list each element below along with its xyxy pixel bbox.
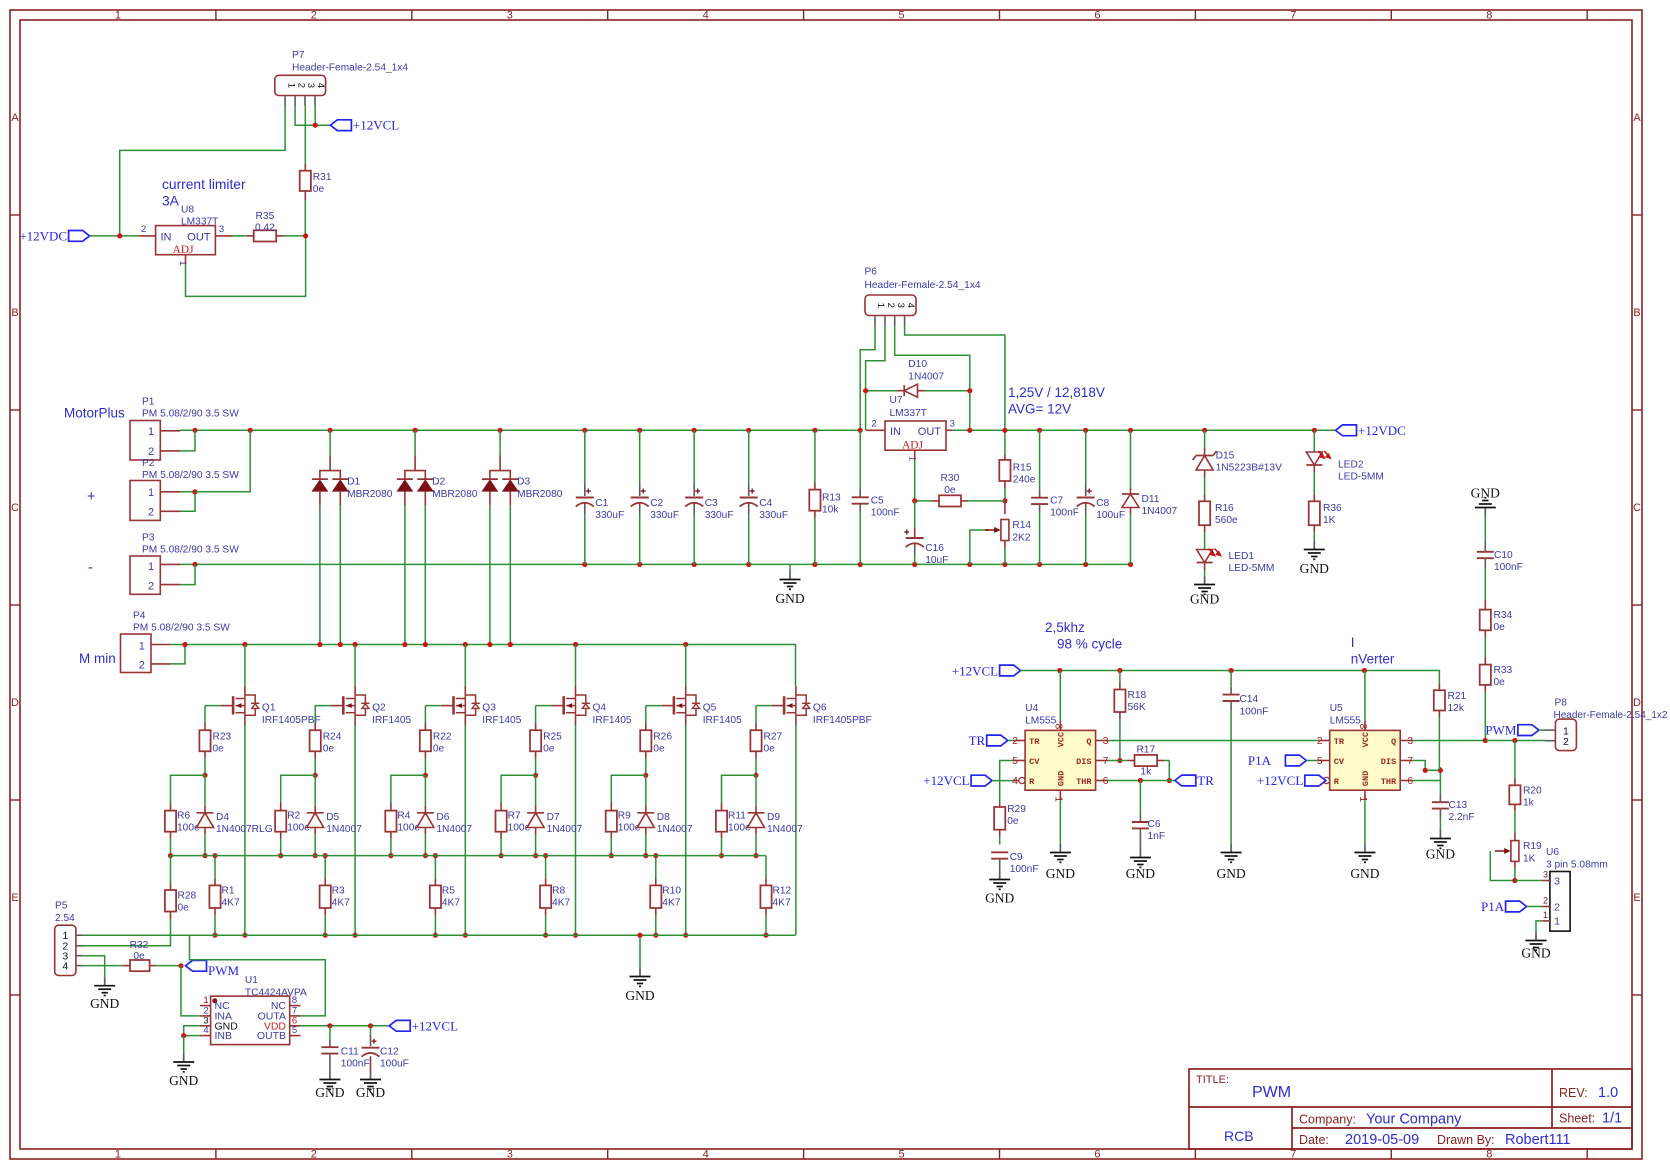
wire U4 THR line: [1108, 780, 1175, 782]
svg-text:1: 1: [148, 487, 154, 499]
svg-text:R8: R8: [552, 886, 565, 897]
svg-text:7: 7: [1103, 755, 1109, 767]
wire P6 pin2 to D10 anode-left: [866, 326, 885, 431]
junction rail A x=860.2: [858, 428, 863, 433]
svg-text:-: -: [88, 560, 93, 576]
svg-text:GND: GND: [1300, 561, 1329, 576]
resistor R16 560e: [1199, 501, 1210, 525]
junction rail A x=1004.9: [1002, 428, 1007, 433]
junction rail A x=694.2: [692, 428, 697, 433]
resistor R33 0e: [1480, 665, 1491, 685]
wire VDD to +12VCL: [301, 1025, 390, 1027]
svg-text:GND: GND: [315, 1085, 344, 1100]
junction rail G Q1 source: [242, 933, 247, 938]
wire Q5 source to rail G: [685, 715, 687, 725]
svg-text:R10: R10: [662, 886, 681, 897]
svg-text:R11: R11: [728, 811, 746, 822]
svg-text:D9: D9: [767, 812, 780, 823]
wire rail G source common: [83, 934, 795, 936]
resistor R5 4K7: [430, 885, 441, 908]
diode D7 1N4007: [535, 775, 537, 806]
svg-text:0e: 0e: [1007, 816, 1019, 827]
wire OUTA to rail S loop: [190, 935, 326, 1016]
svg-text:C2: C2: [650, 498, 663, 509]
svg-text:1N4007: 1N4007: [547, 824, 583, 835]
wire U4 Q to U5 TR: [1108, 740, 1317, 742]
gate resistor R25 0e: [536, 705, 552, 707]
resistor R32 0e: [83, 965, 123, 967]
junction rail M x=465.3: [463, 642, 468, 647]
net flag +12VDC input: [69, 231, 90, 242]
svg-text:5: 5: [898, 1149, 904, 1161]
ground under C11: [329, 1071, 331, 1080]
wire U4 DIS: [1108, 760, 1120, 762]
svg-text:6: 6: [1103, 775, 1109, 787]
svg-text:R4: R4: [397, 811, 410, 822]
svg-text:A: A: [11, 112, 19, 124]
net flag +12VCL at U1: [389, 1020, 410, 1031]
capacitor C9 100nF: [991, 851, 1008, 853]
svg-text:R5: R5: [442, 886, 455, 897]
U8 ADJ pin stub: [185, 255, 187, 264]
junction rail G Q4 source: [573, 933, 578, 938]
wire P5 pin3 to ground: [83, 956, 105, 978]
svg-text:LM337T: LM337T: [890, 408, 927, 419]
junction D10 left: [863, 388, 868, 393]
svg-text:AVG= 12V: AVG= 12V: [1008, 402, 1071, 417]
connector P2 PM 5.08/2/90 3.5 SW: [130, 481, 160, 521]
junction rail M x=185: [182, 642, 187, 647]
svg-text:E: E: [1633, 892, 1640, 904]
diode D9 1N4007: [755, 775, 757, 806]
svg-text:P1A: P1A: [1481, 899, 1505, 914]
svg-text:12k: 12k: [1448, 703, 1465, 714]
resistor R17 1k: [1120, 760, 1128, 762]
transistor Q1 IRF1405PBF: [244, 645, 246, 687]
svg-text:RCB: RCB: [1224, 1128, 1254, 1144]
svg-text:0e: 0e: [653, 744, 665, 755]
resistor R10 4K7: [650, 885, 661, 908]
resistor R4 100e: [385, 811, 396, 832]
svg-text:D2: D2: [432, 477, 445, 488]
svg-text:R26: R26: [653, 732, 672, 743]
svg-text:I: I: [1351, 635, 1355, 650]
junction rail G R8: [543, 933, 548, 938]
svg-text:Q1: Q1: [262, 703, 276, 714]
wire gate node branch Q3: [391, 775, 426, 803]
svg-text:Sheet:: Sheet:: [1559, 1112, 1595, 1126]
svg-text:INB: INB: [215, 1030, 233, 1042]
resistor R35 0.42: [233, 235, 247, 237]
svg-text:Robert111: Robert111: [1505, 1132, 1571, 1148]
svg-text:P5: P5: [55, 901, 68, 912]
svg-text:1: 1: [907, 456, 918, 461]
wire rail M (M min): [171, 645, 796, 687]
svg-text:4K7: 4K7: [222, 897, 240, 908]
gate resistor R24 0e: [315, 705, 331, 707]
svg-text:DIS: DIS: [1076, 757, 1091, 767]
svg-text:D4: D4: [216, 812, 229, 823]
svg-text:R3: R3: [332, 886, 345, 897]
svg-text:2: 2: [311, 1149, 317, 1161]
svg-text:2.54: 2.54: [55, 913, 75, 924]
junction C13 node: [1438, 768, 1443, 773]
svg-text:D7: D7: [547, 812, 560, 823]
resistor R29 0e: [994, 807, 1005, 830]
svg-text:OUT: OUT: [187, 232, 211, 244]
wire U5 VCC: [1364, 671, 1366, 721]
svg-text:+12VCL: +12VCL: [923, 773, 969, 788]
junction R20 node: [1512, 738, 1517, 743]
svg-text:10uF: 10uF: [925, 555, 948, 566]
svg-text:560e: 560e: [1215, 515, 1238, 526]
svg-text:U4: U4: [1025, 703, 1038, 714]
svg-text:C7: C7: [1050, 496, 1063, 507]
svg-text:4: 4: [203, 1025, 208, 1036]
junction rail B x=639.7: [637, 562, 642, 567]
svg-text:1: 1: [177, 260, 188, 265]
junction rail B x=860.2: [858, 562, 863, 567]
svg-text:0e: 0e: [944, 485, 956, 496]
svg-text:3: 3: [1554, 875, 1560, 887]
svg-text:P4: P4: [133, 611, 146, 622]
junction PWM output node: [1483, 738, 1488, 743]
svg-text:C16: C16: [925, 543, 944, 554]
junction INB gnd: [181, 1033, 186, 1038]
svg-text:1: 1: [1543, 910, 1548, 920]
svg-text:GND: GND: [90, 996, 119, 1011]
svg-text:GND: GND: [1126, 866, 1155, 881]
capacitor C6 1nF: [1139, 781, 1141, 815]
svg-text:3 pin 5.08mm: 3 pin 5.08mm: [1546, 860, 1608, 871]
svg-text:R13: R13: [822, 493, 841, 504]
svg-text:98 % cycle: 98 % cycle: [1057, 637, 1122, 652]
wire P7 pin1 to IN node: [120, 106, 285, 236]
junction R19 bottom: [1512, 878, 1517, 883]
wire gnd to C10: [1484, 516, 1486, 542]
capacitor C3 330uF: [693, 430, 695, 484]
capacitor C4 330uF: [748, 430, 750, 484]
connector P7 Header-Female-2.54_1x4: [275, 75, 326, 95]
resistor R34 0e: [1480, 610, 1491, 631]
diode D10 1N4007: [866, 390, 897, 392]
svg-text:0e: 0e: [178, 902, 190, 913]
wire P1A to U6 pin2: [1527, 906, 1543, 908]
junction rail M x=685.7: [683, 642, 688, 647]
svg-text:4K7: 4K7: [773, 897, 791, 908]
svg-text:Header-Female-2.54_1x4: Header-Female-2.54_1x4: [292, 63, 408, 74]
svg-text:TITLE:: TITLE:: [1196, 1074, 1229, 1086]
regulator U7 LM337T: [885, 421, 946, 450]
svg-text:1: 1: [139, 640, 145, 652]
svg-text:MBR2080: MBR2080: [517, 489, 563, 500]
svg-text:0e: 0e: [323, 744, 335, 755]
junction R17 THR: [1167, 778, 1172, 783]
svg-text:LM555: LM555: [1330, 715, 1361, 726]
capacitor C1 330uF: [584, 430, 586, 484]
junction rail B x=584.8: [582, 562, 587, 567]
svg-text:GND: GND: [1057, 771, 1067, 786]
junction rail S D7: [533, 853, 538, 858]
svg-text:4K7: 4K7: [442, 897, 460, 908]
junction rail M x=319.9: [317, 642, 322, 647]
svg-text:1/1: 1/1: [1602, 1111, 1622, 1127]
svg-text:GND: GND: [1350, 866, 1379, 881]
resistor R15 240e: [999, 460, 1010, 481]
svg-text:0e: 0e: [1494, 622, 1506, 633]
wire P2 pins to rail A: [180, 491, 195, 493]
svg-text:GND: GND: [1521, 946, 1550, 961]
junction rail S R2: [278, 853, 283, 858]
svg-text:U6: U6: [1546, 847, 1559, 858]
svg-text:current limiter: current limiter: [162, 177, 246, 192]
svg-text:OUTB: OUTB: [257, 1030, 286, 1042]
svg-text:2.2nF: 2.2nF: [1449, 812, 1475, 823]
ground under C14: [1230, 844, 1232, 853]
wire U4 CV to R29: [1000, 761, 1013, 804]
svg-text:3: 3: [507, 1149, 513, 1161]
ground at rail G: [639, 935, 641, 968]
junction rail B x=195: [192, 562, 197, 567]
junction rail M x=340.3: [338, 642, 343, 647]
svg-text:GND: GND: [1190, 592, 1219, 607]
svg-text:R34: R34: [1494, 610, 1513, 621]
svg-text:1K: 1K: [1523, 854, 1536, 865]
wire P7 pin2 to +12VCL: [295, 106, 330, 126]
svg-text:100nF: 100nF: [1050, 507, 1079, 518]
svg-text:MotorPlus: MotorPlus: [64, 406, 125, 421]
svg-text:IN: IN: [890, 426, 901, 438]
svg-text:+12VCL: +12VCL: [412, 1018, 458, 1033]
capacitor C7 100nF: [1039, 430, 1041, 490]
diode D11 1N4007: [1130, 430, 1132, 488]
svg-text:PWM: PWM: [1252, 1084, 1291, 1101]
junction rail A x=500.1: [498, 428, 503, 433]
svg-text:IRF1405: IRF1405: [372, 715, 411, 726]
svg-text:R25: R25: [543, 732, 562, 743]
svg-text:P8: P8: [1555, 698, 1568, 709]
svg-text:3: 3: [895, 303, 906, 308]
svg-text:4: 4: [703, 1149, 709, 1161]
junction vcc rail x=1231.1: [1229, 668, 1234, 673]
junction C11 vdd: [327, 1023, 332, 1028]
wire U4 VCC: [1059, 671, 1061, 721]
svg-text:1: 1: [148, 561, 154, 573]
transistor Q5 IRF1405: [685, 645, 687, 687]
svg-text:R20: R20: [1523, 786, 1542, 797]
svg-text:1: 1: [875, 303, 886, 308]
svg-text:P6: P6: [865, 267, 878, 278]
svg-text:R1: R1: [222, 886, 235, 897]
junction rail A x=330.1: [328, 428, 333, 433]
svg-text:ADJ: ADJ: [902, 440, 924, 452]
svg-text:LM555: LM555: [1025, 715, 1056, 726]
net flag +12VCL U5 R pin: [1305, 775, 1326, 786]
wire R31 to output node: [304, 191, 306, 200]
svg-text:4K7: 4K7: [552, 897, 570, 908]
svg-text:M min: M min: [79, 651, 116, 666]
wire P6 pin4 to R15 column: [905, 326, 1005, 455]
svg-text:R21: R21: [1448, 691, 1467, 702]
zener diode D15 1N5223B#13V: [1204, 430, 1206, 448]
svg-text:MBR2080: MBR2080: [432, 489, 478, 500]
junction rail S R4: [388, 853, 393, 858]
svg-text:5: 5: [1012, 755, 1018, 767]
svg-text:D6: D6: [436, 812, 449, 823]
wire P1 pin2 join: [180, 430, 195, 451]
wire P4 pin2 join: [171, 645, 185, 664]
capacitor C16 10uF: [906, 537, 924, 539]
wire PWM node to INA: [181, 966, 200, 1016]
junction rail A x=1039.6: [1037, 428, 1042, 433]
resistor R13 10k: [814, 430, 816, 482]
svg-text:100nF: 100nF: [1010, 864, 1039, 875]
transistor Q3 IRF1405: [464, 645, 466, 687]
svg-text:C4: C4: [759, 498, 772, 509]
svg-text:1N4007: 1N4007: [436, 824, 472, 835]
svg-text:R35: R35: [256, 211, 275, 222]
junction rail A x=969.8: [967, 428, 972, 433]
wire P7 pin4 to +12VCL: [314, 106, 316, 126]
svg-text:4K7: 4K7: [662, 897, 680, 908]
wire U8 ADJ loop to output node: [186, 236, 306, 297]
resistor R21 12k: [1434, 690, 1445, 710]
wire P6 pin3 to D10 right: [895, 326, 970, 431]
svg-text:P3: P3: [142, 533, 155, 544]
junction rail G R10: [653, 933, 658, 938]
svg-text:5: 5: [898, 10, 904, 22]
svg-text:100nF: 100nF: [1494, 562, 1523, 573]
svg-text:R24: R24: [323, 732, 342, 743]
wire Q6 source to rail G: [795, 715, 797, 725]
svg-text:U1: U1: [245, 975, 258, 986]
junction rail S D8: [643, 853, 648, 858]
wire rail S gate common: [171, 855, 766, 857]
svg-text:TC4424AVPA: TC4424AVPA: [245, 987, 307, 998]
LED LED2 LED-5MM: [1313, 430, 1315, 452]
svg-text:1N4007: 1N4007: [326, 824, 362, 835]
junction rail B x=814.9: [812, 562, 817, 567]
svg-text:1: 1: [115, 10, 121, 22]
junction rail S D9: [753, 853, 758, 858]
svg-text:C1: C1: [595, 498, 608, 509]
svg-text:8: 8: [1357, 723, 1369, 729]
svg-text:Header-Female-2.54_1x2: Header-Female-2.54_1x2: [1554, 710, 1668, 721]
wire U5 Q output: [1413, 740, 1486, 742]
wire PWM line to P8: [1485, 740, 1545, 742]
U7 ADJ stub and wire to adj node: [914, 450, 916, 460]
svg-text:1k: 1k: [1140, 767, 1152, 778]
svg-text:7: 7: [1407, 755, 1413, 767]
svg-text:GND: GND: [1046, 866, 1075, 881]
svg-text:1.0: 1.0: [1598, 1085, 1618, 1101]
svg-text:3A: 3A: [162, 194, 180, 209]
svg-text:R2: R2: [287, 811, 300, 822]
svg-text:B: B: [1633, 307, 1640, 319]
junction rail G Q3 source: [463, 933, 468, 938]
svg-text:8: 8: [1486, 10, 1492, 22]
junction rail M x=355.1: [353, 642, 358, 647]
svg-text:5: 5: [1317, 755, 1323, 767]
gate resistor R27 0e: [756, 705, 772, 707]
svg-text:R12: R12: [773, 886, 792, 897]
resistor R20 1k: [1514, 741, 1516, 779]
wire P6 pin1 to rail A: [860, 326, 875, 431]
connector P1 PM 5.08/2/90 3.5 SW: [130, 421, 160, 461]
svg-text:P2: P2: [142, 458, 155, 469]
junction rail B x=1039.6: [1037, 562, 1042, 567]
svg-text:2: 2: [295, 83, 306, 88]
svg-text:Q5: Q5: [703, 703, 717, 714]
ground under C9: [999, 859, 1001, 871]
svg-text:R: R: [1029, 777, 1035, 787]
junction rail S R9: [609, 853, 614, 858]
junction rail G R1: [212, 933, 217, 938]
svg-text:THR: THR: [1381, 777, 1397, 787]
svg-text:GND: GND: [169, 1073, 198, 1088]
svg-text:Header-Female-2.54_1x4: Header-Female-2.54_1x4: [865, 280, 981, 291]
resistor R36 1K: [1309, 501, 1320, 525]
wire R17 to THR line: [1168, 761, 1170, 781]
diode D8 1N4007: [645, 775, 647, 806]
resistor R30 0e: [915, 500, 932, 502]
svg-text:Q4: Q4: [593, 703, 607, 714]
wire U5 GND down: [1364, 800, 1366, 844]
svg-text:IN: IN: [161, 232, 172, 244]
ground under U6: [1535, 932, 1537, 941]
svg-text:1: 1: [1052, 796, 1064, 802]
svg-text:2: 2: [148, 581, 154, 593]
svg-text:3: 3: [1103, 735, 1109, 747]
junction rail A x=195: [192, 428, 197, 433]
resistor R31 0e: [300, 171, 311, 191]
svg-text:0e: 0e: [1494, 677, 1506, 688]
svg-text:GND: GND: [1216, 866, 1245, 881]
svg-text:1: 1: [115, 1149, 121, 1161]
svg-text:C11: C11: [341, 1047, 359, 1058]
dual schottky diode D1 MBR2080: [329, 430, 331, 455]
svg-text:0e: 0e: [764, 744, 776, 755]
junction gate node Q4: [533, 773, 538, 778]
svg-text:C12: C12: [380, 1047, 399, 1058]
net flag +12VCL U4 R pin: [971, 775, 992, 786]
svg-text:240e: 240e: [1013, 474, 1036, 485]
resistor R3 4K7: [320, 885, 331, 908]
ground under LED1: [1204, 570, 1206, 576]
net flag +12VDC rail A: [1336, 425, 1357, 436]
net flag TR feedback: [1175, 775, 1196, 786]
junction rail A x=584.8: [582, 428, 587, 433]
svg-text:C13: C13: [1449, 800, 1468, 811]
junction rail S R5: [433, 853, 438, 858]
svg-text:2: 2: [1554, 901, 1560, 913]
svg-text:PM 5.08/2/90 3.5 SW: PM 5.08/2/90 3.5 SW: [142, 545, 239, 556]
junction DIS node: [1117, 758, 1122, 763]
svg-text:R17: R17: [1136, 745, 1155, 756]
svg-text:D10: D10: [908, 359, 927, 370]
svg-text:Q: Q: [1086, 737, 1091, 747]
svg-text:GND: GND: [625, 988, 654, 1003]
svg-text:Your Company: Your Company: [1366, 1112, 1462, 1128]
svg-text:R33: R33: [1494, 665, 1513, 676]
capacitor C2 330uF: [639, 430, 641, 484]
svg-text:IRF1405: IRF1405: [482, 715, 521, 726]
svg-text:R27: R27: [764, 732, 783, 743]
svg-text:PWM: PWM: [1485, 723, 1517, 738]
svg-text:ADJ: ADJ: [173, 244, 195, 256]
svg-text:MBR2080: MBR2080: [347, 489, 393, 500]
junction D10 right: [967, 388, 972, 393]
